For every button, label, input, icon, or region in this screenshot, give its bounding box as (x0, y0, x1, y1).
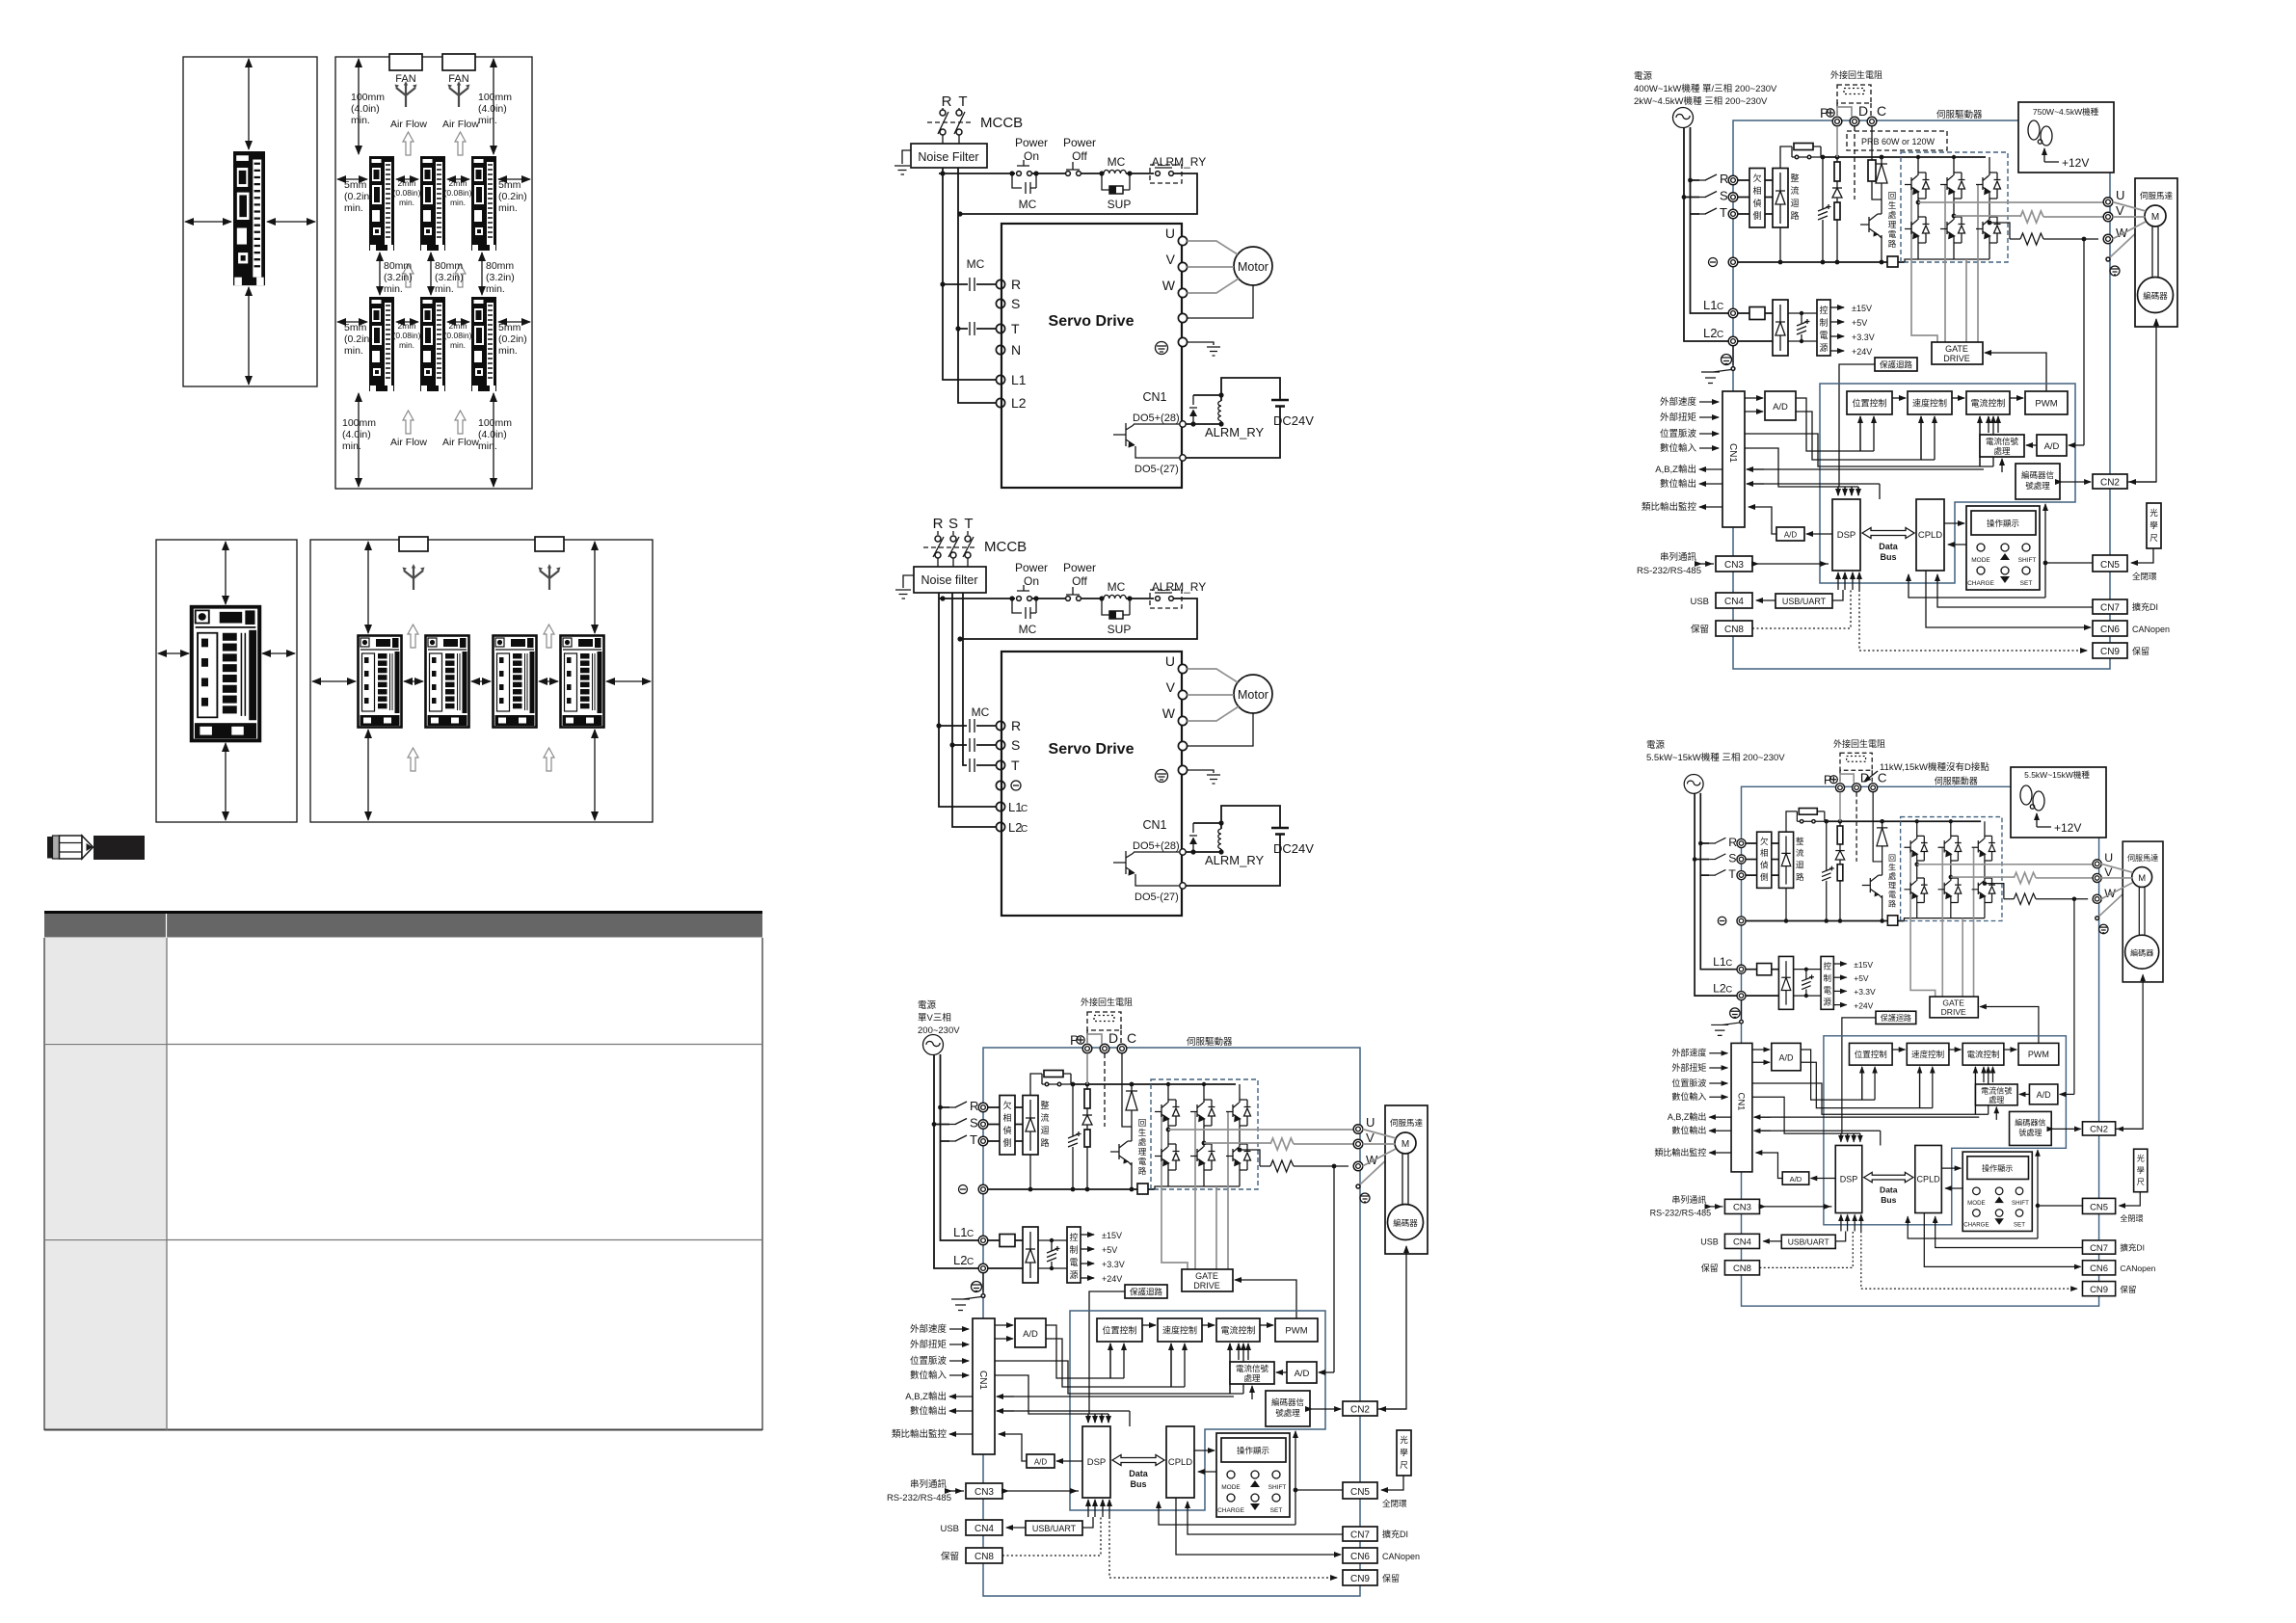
svg-text:min.: min. (351, 115, 370, 126)
servo box and right side (1001, 224, 1314, 488)
MC contacts on R and T rows (940, 281, 945, 286)
svg-text:(0.2in): (0.2in) (498, 191, 527, 202)
svg-text:200~230V: 200~230V (918, 1025, 960, 1036)
svg-text:min.: min. (478, 115, 497, 126)
terminals on servo drive left edge (996, 279, 1004, 288)
svg-text:Noise Filter: Noise Filter (918, 150, 978, 164)
svg-text:2mm: 2mm (449, 321, 467, 331)
svg-text:5.5kW~15kW機種 三相 200~230V: 5.5kW~15kW機種 三相 200~230V (1646, 752, 1785, 763)
svg-text:R: R (942, 93, 952, 110)
svg-text:(0.2in): (0.2in) (344, 191, 373, 202)
svg-text:外接回生電阻: 外接回生電阻 (1081, 997, 1133, 1007)
servo drive block diagram B (1637, 85, 2177, 669)
svg-text:(0.08in): (0.08in) (444, 188, 472, 198)
svg-text:80mm: 80mm (486, 260, 514, 272)
terminals on servo drive left edge (996, 721, 1004, 730)
svg-text:100mm: 100mm (478, 92, 512, 103)
airflow arrows mid (403, 264, 414, 287)
svg-text:80mm: 80mm (435, 260, 463, 272)
svg-text:MC: MC (967, 257, 985, 271)
svg-text:2mm: 2mm (398, 321, 416, 331)
vertical 80mm arrows between rows (379, 253, 381, 295)
wide servo drive (192, 607, 259, 741)
servo box and right side (1001, 652, 1314, 916)
clearance arrow bottom (248, 287, 250, 385)
ground at filter (895, 575, 914, 599)
svg-text:2kW~4.5kW機種 三相 200~230V: 2kW~4.5kW機種 三相 200~230V (1634, 95, 1768, 107)
svg-text:(4.0in): (4.0in) (478, 429, 507, 440)
fan icons (403, 564, 425, 590)
svg-text:min.: min. (486, 283, 505, 295)
svg-text:min.: min. (344, 345, 363, 357)
svg-text:(0.08in): (0.08in) (393, 188, 421, 198)
svg-text:T: T (964, 516, 973, 532)
airflow arrows top (403, 132, 414, 155)
svg-text:2mm: 2mm (398, 178, 416, 188)
svg-text:5mm: 5mm (344, 322, 367, 333)
blacked-out label (93, 836, 145, 860)
svg-text:min.: min. (344, 202, 363, 214)
fan option 5.5kW~15kW (2011, 767, 2106, 838)
enclosure box single drive (183, 57, 317, 386)
svg-text:100mm: 100mm (351, 92, 385, 103)
table header (44, 914, 762, 938)
svg-text:min.: min. (450, 198, 466, 207)
svg-text:min.: min. (450, 340, 466, 350)
svg-text:R: R (1011, 277, 1021, 292)
fan option 750W~4.5kW (2018, 102, 2114, 173)
svg-text:C: C (1021, 804, 1028, 814)
svg-text:電源: 電源 (918, 1000, 937, 1011)
svg-text:5mm: 5mm (498, 322, 521, 333)
fan icon right (448, 81, 470, 107)
drives row 1 (369, 156, 394, 251)
svg-text:80mm: 80mm (384, 260, 412, 272)
theta terminal symbol (1011, 781, 1021, 790)
airflow arrows bottom (403, 411, 414, 434)
svg-text:Air Flow: Air Flow (442, 119, 479, 130)
drives row 2 (369, 297, 394, 391)
svg-text:min.: min. (384, 283, 403, 295)
svg-text:T: T (1011, 758, 1020, 773)
svg-text:MCCB: MCCB (984, 539, 1027, 555)
svg-text:5mm: 5mm (498, 179, 521, 191)
row1 dim arrows horizontal (337, 178, 367, 180)
Noise Filter box (911, 144, 987, 168)
svg-text:R: R (1011, 718, 1021, 733)
svg-text:L1: L1 (1011, 372, 1027, 387)
svg-text:T: T (958, 93, 967, 110)
svg-text:11kW,15kW機種沒有D接點: 11kW,15kW機種沒有D接點 (1880, 761, 1989, 773)
table body left column (44, 938, 167, 1043)
svg-text:R: R (933, 516, 944, 532)
svg-text:5.5kW~15kW機種: 5.5kW~15kW機種 (2024, 770, 2090, 780)
svg-text:min.: min. (498, 345, 518, 357)
svg-text:MC: MC (972, 705, 990, 719)
clearance arrow right (267, 221, 315, 223)
svg-text:750W~4.5kW機種: 750W~4.5kW機種 (2033, 107, 2099, 117)
MCCB breaker poles (927, 108, 972, 144)
svg-text:電源: 電源 (1634, 71, 1653, 82)
MCCB breaker poles (923, 531, 977, 567)
fan cutout right (442, 54, 475, 70)
pencil icon (47, 837, 53, 859)
svg-text:100mm: 100mm (478, 417, 512, 429)
svg-text:(0.08in): (0.08in) (393, 331, 421, 340)
MC contacts on R S T rows (936, 723, 941, 728)
svg-text:min.: min. (399, 340, 414, 350)
svg-text:(3.2in): (3.2in) (435, 272, 464, 283)
svg-text:min.: min. (342, 440, 361, 452)
fan icon left (395, 81, 417, 107)
svg-text:電源: 電源 (1646, 740, 1666, 751)
svg-text:S: S (1011, 296, 1020, 311)
svg-text:100mm: 100mm (342, 417, 376, 429)
svg-text:5mm: 5mm (344, 179, 367, 191)
svg-text:Air Flow: Air Flow (390, 437, 427, 448)
ground at filter (894, 150, 911, 174)
svg-text:min.: min. (435, 283, 454, 295)
svg-text:(4.0in): (4.0in) (478, 103, 507, 115)
svg-text:2mm: 2mm (449, 178, 467, 188)
svg-text:(0.2in): (0.2in) (498, 333, 527, 345)
fan cutouts (399, 537, 428, 551)
svg-text:400W~1kW機種 單/三相 200~230V: 400W~1kW機種 單/三相 200~230V (1634, 83, 1777, 94)
svg-text:外接回生電阻: 外接回生電阻 (1830, 69, 1882, 80)
svg-text:S: S (948, 516, 958, 532)
svg-text:C: C (1021, 824, 1028, 835)
svg-text:N: N (1011, 342, 1021, 358)
PRB dashed box (1847, 131, 1947, 150)
vertical 100mm arrows top (358, 59, 360, 154)
svg-text:min.: min. (478, 440, 497, 452)
Noise filter box (914, 567, 986, 593)
servo drive unit (233, 151, 265, 285)
svg-text:(4.0in): (4.0in) (342, 429, 371, 440)
drives (359, 636, 402, 728)
clearance arrow left (185, 221, 231, 223)
svg-text:Air Flow: Air Flow (442, 437, 479, 448)
vertical 100mm arrows bottom (358, 393, 360, 487)
svg-text:MCCB: MCCB (980, 115, 1023, 131)
svg-text:單V三相: 單V三相 (918, 1012, 951, 1024)
svg-text:外接回生電阻: 外接回生電阻 (1833, 738, 1885, 749)
clearance arrow top (248, 59, 250, 149)
enclosure box (335, 57, 532, 489)
svg-text:S: S (1011, 737, 1020, 753)
dim texts (342, 92, 527, 452)
svg-text:(0.08in): (0.08in) (444, 331, 472, 340)
dim arrows (367, 542, 369, 633)
row2 dim arrows horizontal (337, 321, 367, 323)
svg-text:L2: L2 (1011, 395, 1027, 411)
phase verticals (939, 593, 996, 827)
control row (939, 136, 1206, 217)
svg-text:Noise filter: Noise filter (921, 573, 977, 587)
svg-text:Air Flow: Air Flow (390, 119, 427, 130)
phase verticals (943, 168, 996, 403)
svg-text:(3.2in): (3.2in) (486, 272, 515, 283)
svg-text:PRB 60W or 120W: PRB 60W or 120W (1861, 137, 1936, 146)
svg-text:min.: min. (498, 202, 518, 214)
svg-text:(4.0in): (4.0in) (351, 103, 380, 115)
svg-text:T: T (1011, 321, 1020, 336)
control row (939, 561, 1206, 642)
svg-text:min.: min. (399, 198, 414, 207)
fan cutout left (389, 54, 422, 70)
svg-text:(0.2in): (0.2in) (344, 333, 373, 345)
svg-text:(3.2in): (3.2in) (384, 272, 413, 283)
table borders (44, 938, 762, 1430)
